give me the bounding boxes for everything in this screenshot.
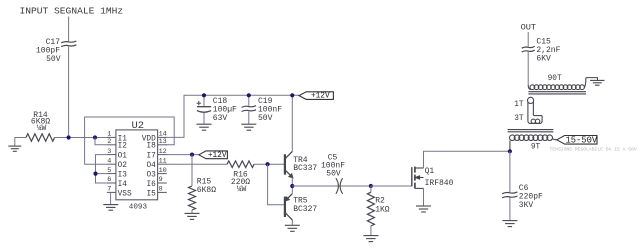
svg-text:11: 11 <box>159 157 167 165</box>
svg-text:5: 5 <box>107 167 111 175</box>
svg-text:OUT: OUT <box>521 23 536 33</box>
label C19 <box>258 97 282 123</box>
svg-text:50V: 50V <box>258 114 273 123</box>
capacitor C5 <box>336 178 343 194</box>
svg-text:O1: O1 <box>118 153 128 161</box>
power flag +12V pin12 <box>199 151 228 160</box>
svg-text:6KV: 6KV <box>536 55 551 64</box>
svg-text:INPUT SEGNALE 1MHz: INPUT SEGNALE 1MHz <box>20 6 124 17</box>
svg-text:R2: R2 <box>375 196 385 205</box>
wire C18 drop <box>203 95 205 106</box>
svg-text:3T: 3T <box>514 115 524 123</box>
ground at VSS <box>103 192 118 210</box>
node I1/I2 tie junction <box>93 135 97 139</box>
ground at 90T <box>590 80 605 85</box>
capacitor C15 <box>522 46 535 52</box>
transformer core upper <box>528 92 586 94</box>
inductor 90T winding <box>528 78 586 90</box>
wire O2 to I8 feedback <box>85 117 175 164</box>
svg-text:TR5: TR5 <box>293 196 308 205</box>
label R14 <box>31 111 50 133</box>
transistor Q1 (MOSFET) <box>412 167 424 189</box>
node C19 junction <box>247 93 251 97</box>
wire 90T to ground <box>586 78 598 81</box>
resistor R14 <box>26 134 55 141</box>
svg-text:¼W: ¼W <box>237 185 247 194</box>
capacitor C6 <box>502 192 517 198</box>
U2 pin stubs <box>107 137 167 192</box>
label 1T <box>514 101 524 109</box>
svg-text:1KΩ: 1KΩ <box>375 206 390 215</box>
svg-text:9T: 9T <box>531 143 541 151</box>
label R16 <box>231 171 250 194</box>
svg-text:90T: 90T <box>548 75 562 83</box>
svg-text:50V: 50V <box>326 170 341 179</box>
wire input to C17 <box>68 17 70 42</box>
svg-text:8: 8 <box>159 186 163 194</box>
wire R15 drop <box>191 155 193 186</box>
svg-text:I7: I7 <box>146 153 156 161</box>
svg-text:4: 4 <box>107 157 111 165</box>
label U2 <box>132 120 145 132</box>
svg-text:1T: 1T <box>514 101 524 109</box>
U2 pin names <box>118 135 157 198</box>
wire gate node to Q1 <box>371 185 412 187</box>
svg-text:3KV: 3KV <box>519 201 534 210</box>
svg-text:I5: I5 <box>146 190 156 198</box>
svg-text:+12V: +12V <box>311 93 330 101</box>
wire R2 to ground <box>370 226 372 235</box>
inductor 9T winding <box>510 135 557 151</box>
ground at R2 <box>363 236 378 242</box>
wire OUT to C15 <box>527 32 529 47</box>
ground at Q1 <box>416 206 431 212</box>
power flag 15-50V <box>557 135 598 145</box>
wire R16 to base node <box>254 163 285 165</box>
label 3T <box>514 115 524 123</box>
svg-text:12: 12 <box>159 148 167 156</box>
capacitor C17 <box>61 41 76 47</box>
transistor TR4 <box>285 151 293 177</box>
label 9T <box>531 143 541 151</box>
wire Q1 drain <box>424 151 510 168</box>
wire TR4 collector to rail <box>291 95 293 151</box>
wire base node to TR5 base <box>268 164 285 205</box>
svg-text:6K8Ω: 6K8Ω <box>197 186 216 195</box>
transformer core lower <box>508 130 554 132</box>
wire TR4 emitter <box>291 177 293 186</box>
ground at C6 <box>502 221 517 227</box>
node C18 junction <box>202 93 206 97</box>
svg-text:13: 13 <box>159 138 167 146</box>
svg-text:I3: I3 <box>118 172 128 180</box>
wire Q1 source to ground <box>423 188 425 205</box>
svg-text:Q1: Q1 <box>425 167 435 176</box>
svg-text:I8: I8 <box>146 143 156 151</box>
svg-text:U2: U2 <box>132 120 145 132</box>
svg-text:BC327: BC327 <box>293 205 317 214</box>
label 4093 <box>129 203 148 211</box>
label 90T <box>548 75 562 83</box>
svg-text:I2: I2 <box>118 143 128 151</box>
label TR4 <box>293 156 317 173</box>
svg-text:I4: I4 <box>118 181 128 189</box>
svg-text:3: 3 <box>107 148 111 156</box>
wire I3 stub tie <box>96 173 107 175</box>
wire I2 tie <box>95 138 107 145</box>
svg-text:15-50V: 15-50V <box>565 135 597 145</box>
wire R14 to U2 input net <box>55 137 107 139</box>
wire VDD to +12V rail <box>166 95 299 137</box>
ground at TR5 <box>285 225 300 231</box>
node C17/R14 junction <box>67 135 71 139</box>
wire OUT label <box>521 23 536 33</box>
svg-text:O3: O3 <box>146 172 156 180</box>
wire C19 drop <box>248 95 250 105</box>
wire TR5 emitter <box>291 186 293 194</box>
wire emitters to C5 <box>292 185 371 187</box>
node emitter junction <box>290 184 294 188</box>
svg-text:BC337: BC337 <box>293 164 317 173</box>
svg-text:¼W: ¼W <box>37 124 47 133</box>
svg-text:+12V: +12V <box>208 152 227 160</box>
label C18 <box>213 97 237 123</box>
wire C17 to input node <box>68 46 70 137</box>
label C17 value <box>36 38 61 64</box>
label C15 <box>536 37 560 63</box>
label C6 <box>519 184 543 210</box>
capacitor C19 <box>242 106 256 112</box>
wire R2 top <box>370 186 372 192</box>
power flag +12V rail <box>299 92 333 101</box>
ground at C18 <box>197 124 212 130</box>
ground at R15 <box>185 213 200 219</box>
svg-text:IRF840: IRF840 <box>425 179 454 188</box>
transistor TR5 <box>285 194 292 220</box>
label TENSIONE REGOLABILE <box>550 147 637 153</box>
svg-text:4093: 4093 <box>129 203 148 211</box>
label TR5 <box>293 196 317 214</box>
label C5 <box>321 153 345 178</box>
capacitor C18 (electrolytic) <box>197 101 212 112</box>
label Q1 <box>425 167 454 188</box>
node O1/I3 junction <box>93 172 97 176</box>
svg-text:6: 6 <box>107 176 111 184</box>
node pin12/R15 junction <box>190 153 194 157</box>
node base junction <box>266 162 270 166</box>
svg-text:TENSIONE REGOLABILE DA 15 A 50: TENSIONE REGOLABILE DA 15 A 50V <box>550 147 637 153</box>
svg-text:O4: O4 <box>146 162 156 170</box>
node INPUT SEGNALE 1MHz label <box>20 6 124 17</box>
resistor R2 <box>367 192 374 226</box>
node TR4 collector rail junction <box>290 93 294 97</box>
svg-text:63V: 63V <box>213 114 228 123</box>
node gate/R2 junction <box>369 184 373 188</box>
wire pin11 to R16 <box>166 163 227 165</box>
svg-text:50V: 50V <box>46 55 61 64</box>
resistor R16 <box>227 161 254 168</box>
wire C18 to ground <box>203 113 205 124</box>
wire R15 to ground <box>191 210 193 213</box>
label R2 <box>375 196 390 214</box>
svg-text:2: 2 <box>107 138 111 146</box>
node drain/C6/9T junction <box>508 149 512 153</box>
U2 pin numbers <box>107 131 167 194</box>
svg-text:O2: O2 <box>118 162 128 170</box>
svg-text:9: 9 <box>159 176 163 184</box>
label R15 <box>197 177 216 194</box>
svg-text:10: 10 <box>159 167 167 175</box>
svg-text:VSS: VSS <box>118 190 132 198</box>
wire C6 to ground <box>509 198 511 221</box>
wire C19 to ground <box>248 111 250 124</box>
op-amp U2 box (4093) <box>116 130 158 200</box>
wire O1 to I3/I4 <box>96 155 107 183</box>
inductor 1T/3T winding <box>528 97 543 123</box>
wire pin12 to +12V <box>166 154 199 156</box>
resistor R15 <box>189 186 196 210</box>
svg-text:I6: I6 <box>146 181 156 189</box>
wire TR5 collector to ground <box>291 220 293 225</box>
ground at R14 <box>8 138 26 152</box>
ground at C19 <box>241 124 256 130</box>
wire drain node to C6 <box>509 151 511 192</box>
wire C15 to 90T <box>527 52 529 85</box>
